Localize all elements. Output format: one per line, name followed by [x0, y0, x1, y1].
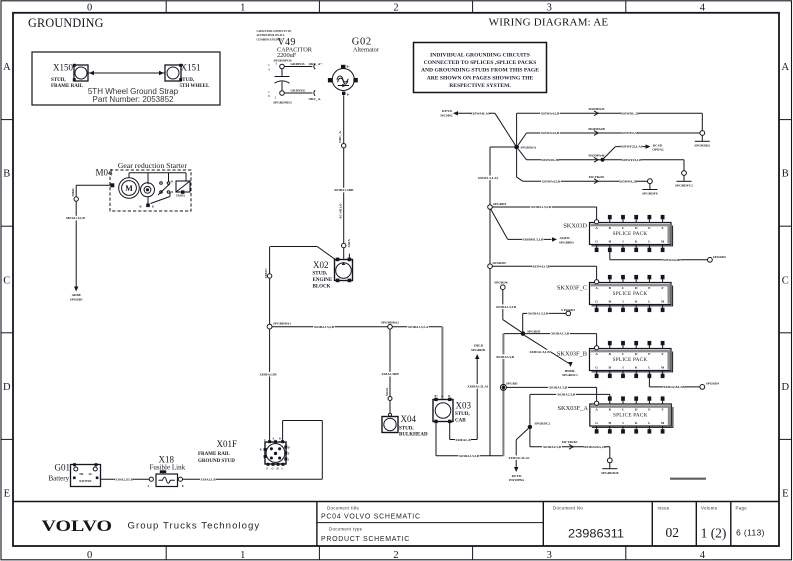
frame row labels left [3, 62, 11, 499]
svg-text:S PGRD3: S PGRD3 [561, 308, 575, 312]
starter motor M [119, 178, 140, 199]
svg-text:SKX03F_B: SKX03F_B [557, 350, 587, 357]
svg-text:G: G [595, 299, 598, 303]
wire to ADBE SPGRB arrow [66, 201, 86, 301]
svg-text:X03BM1.5,LB: X03BM1.5,LB [523, 238, 545, 242]
svg-text:MCTR24F: MCTR24F [562, 440, 578, 444]
svg-text:2: 2 [393, 3, 398, 14]
svg-text:B: B [782, 169, 789, 180]
ground splice SPGRDD2 [700, 131, 705, 136]
svg-text:X05WA4,5,B: X05WA4,5,B [541, 131, 560, 135]
stud X04 bulkhead [382, 413, 428, 437]
svg-text:F: F [662, 286, 664, 290]
svg-text:Fusible Link: Fusible Link [150, 463, 186, 471]
wire 1 junction to SPGRDD2 [517, 107, 703, 145]
svg-text:A: A [782, 62, 790, 73]
svg-text:WIRING DIAGRAM: AE: WIRING DIAGRAM: AE [489, 17, 609, 29]
svg-text:BLOCK: BLOCK [313, 285, 331, 290]
wire G02 to X02 [343, 95, 345, 259]
svg-text:ORC_A+: ORC_A+ [309, 62, 323, 66]
capacitor note text [257, 30, 292, 42]
svg-text:M: M [125, 184, 133, 193]
title block [13, 502, 779, 547]
svg-text:A: A [441, 395, 443, 398]
capacitor C V49 symbol [268, 63, 289, 100]
svg-text:X03BA1.5,LB: X03BA1.5,LB [531, 205, 552, 209]
svg-text:MCM02: MCM02 [440, 114, 453, 118]
node SPGRDC2 [528, 421, 551, 429]
starter solenoid [141, 183, 155, 197]
junction SPGRD7 [500, 381, 518, 390]
svg-text:X03DA2SG,2B: X03DA2SG,2B [584, 445, 606, 449]
wire to SKX03F_C pin A [492, 264, 596, 280]
wire node to KEYD INFOPBA arrow [508, 429, 530, 483]
capacitor V49 labels [274, 37, 313, 63]
svg-text:X150: X150 [53, 63, 73, 73]
svg-text:1: 1 [240, 3, 245, 14]
svg-text:ARE SHOWN ON PAGES SHOWING THE: ARE SHOWN ON PAGES SHOWING THE [427, 75, 534, 81]
wire node up to S PGRD3 connector [523, 308, 576, 331]
svg-text:CONNECTED TO SPLICES ,SPLICE P: CONNECTED TO SPLICES ,SPLICE PACKS [424, 60, 537, 66]
svg-text:X03DA1M,.5B: X03DA1M,.5B [663, 385, 685, 389]
svg-text:ORC_A-: ORC_A- [309, 97, 322, 101]
wire label X03BA1.5RB [334, 188, 354, 193]
svg-text:GROUNDING: GROUNDING [28, 16, 104, 30]
svg-text:X03BA1.5,LA: X03BA1.5,LA [408, 325, 429, 329]
ground strap wire between X150 and X151 [88, 71, 165, 75]
svg-text:STUD,: STUD, [180, 78, 195, 83]
svg-text:B-: B- [140, 206, 143, 209]
svg-text:H: H [608, 299, 611, 303]
wire node to HDML SPGRDC1 arrow [525, 335, 579, 376]
stud X01F frame rail ground stud [198, 438, 290, 471]
svg-text:SPLICE PACK: SPLICE PACK [613, 357, 648, 363]
svg-text:E: E [782, 489, 788, 500]
wire 4 junction to SPGRDF6 [517, 149, 648, 183]
page cell [736, 506, 765, 538]
svg-text:F: F [662, 226, 664, 230]
svg-text:CAB: CAB [455, 418, 466, 423]
svg-text:1 (2): 1 (2) [701, 526, 727, 541]
svg-text:SPGRDBA2: SPGRDBA2 [381, 320, 399, 324]
svg-text:SPGRD: SPGRD [506, 381, 518, 385]
wire SPGRDBA2 to X03 bus corner [392, 325, 442, 330]
svg-text:STUD,: STUD, [313, 272, 328, 277]
svg-text:PRODUCT SCHEMATIC: PRODUCT SCHEMATIC [321, 536, 410, 543]
wire 2 junction to SPGRDD2 [518, 127, 700, 145]
wire to X04 pin [389, 401, 391, 415]
svg-text:MODPA46: MODPA46 [589, 153, 605, 157]
svg-text:STUD,: STUD, [455, 412, 470, 417]
svg-text:F: F [662, 352, 664, 356]
svg-text:INDIVIDUAL GROUNDING CIRCUITS: INDIVIDUAL GROUNDING CIRCUITS [430, 53, 530, 59]
svg-text:X151: X151 [181, 63, 201, 73]
connector SPGRD6 [494, 281, 507, 290]
svg-text:SPGRDD26: SPGRDD26 [601, 471, 619, 475]
svg-text:SPGRD9: SPGRD9 [493, 261, 506, 265]
svg-text:STUD,: STUD, [51, 78, 66, 83]
svg-text:4: 4 [700, 3, 706, 14]
svg-text:3: 3 [547, 550, 552, 561]
wire SKX03F_B pin L to SPGRD4 [649, 378, 719, 389]
svg-text:C: C [264, 439, 266, 442]
svg-text:Volume: Volume [701, 506, 718, 511]
bus wire x=490 [477, 147, 498, 456]
stud X02 engine block [313, 254, 353, 290]
junction SPGRD9 on bus [488, 261, 506, 269]
grey bus down to X03 [441, 327, 443, 399]
svg-text:FRAME RAIL: FRAME RAIL [51, 84, 84, 89]
stud X03 cab [433, 395, 471, 423]
svg-text:D: D [782, 382, 790, 393]
svg-text:GROUND STUD: GROUND STUD [198, 459, 235, 464]
wire 3 junction to SPGRDFC2 [518, 149, 684, 170]
svg-text:Ah: Ah [89, 473, 93, 476]
svg-text:M04A1.5,LB: M04A1.5,LB [66, 216, 85, 220]
document title cell [321, 506, 421, 521]
wire node to SPGRDD26 [530, 429, 610, 458]
stud X151 [165, 63, 210, 89]
grey bus from node down [495, 334, 523, 456]
svg-text:G: G [595, 239, 598, 243]
svg-text:X18A3,LB: X18A3,LB [200, 477, 216, 481]
svg-text:X05WA3.5B: X05WA3.5B [532, 264, 551, 268]
svg-text:23986311: 23986311 [568, 526, 624, 540]
svg-text:H: H [608, 365, 611, 369]
svg-text:SPGRDNEG: SPGRDNEG [273, 100, 292, 104]
svg-text:X02: X02 [313, 260, 329, 270]
svg-text:A: A [3, 62, 11, 73]
svg-text:STUD,: STUD, [399, 426, 414, 431]
wire SPGRDBA2 down to X04 [381, 329, 399, 396]
svg-text:B+: B+ [435, 395, 439, 398]
svg-text:GRD5A: GRD5A [176, 195, 185, 198]
svg-text:D: D [288, 446, 290, 449]
svg-text:X03BA2.5B: X03BA2.5B [259, 372, 277, 376]
svg-text:KEYD: KEYD [442, 109, 452, 113]
ground splice SPGRDFC2 [682, 171, 687, 176]
svg-text:X05W1.5,LA1: X05W1.5,LA1 [478, 176, 499, 180]
svg-text:G: G [595, 365, 598, 369]
svg-text:INFOPBA: INFOPBA [509, 478, 525, 482]
wire X03 bottom-right to IMLD arrow [450, 344, 489, 442]
grey continuation mark bottom right [670, 478, 706, 480]
svg-text:H: H [608, 239, 611, 243]
svg-text:K: K [635, 365, 638, 369]
svg-text:H: H [277, 467, 279, 470]
svg-text:SPGRB03: SPGRB03 [559, 240, 574, 244]
svg-text:X05WF23,LB: X05WF23,LB [621, 158, 642, 162]
connector X01FC [264, 268, 272, 279]
svg-text:SPGRB1: SPGRB1 [70, 297, 83, 301]
connector M04C [71, 187, 79, 201]
document type cell [321, 526, 410, 543]
alternator G02 [328, 37, 380, 97]
svg-text:ENGINE: ENGINE [313, 278, 333, 283]
starter left pin [110, 183, 114, 187]
svg-text:C: C [782, 275, 789, 286]
frame row labels right [782, 62, 790, 499]
svg-text:K: K [260, 449, 262, 452]
svg-text:X03A2.5RB: X03A2.5RB [381, 372, 399, 376]
svg-text:PC04 VOLVO SCHEMATIC: PC04 VOLVO SCHEMATIC [321, 513, 421, 520]
svg-text:SKX03F_A: SKX03F_A [557, 405, 588, 412]
connector X02A on wire [342, 239, 351, 248]
svg-text:X03DA1.5,LB: X03DA1.5,LB [528, 312, 549, 316]
svg-text:Group Trucks Technology: Group Trucks Technology [128, 521, 261, 532]
svg-text:SPLICE PACK: SPLICE PACK [613, 231, 648, 237]
battery G01 [49, 462, 101, 486]
wire to SKX03D pin A [492, 205, 596, 220]
svg-text:X03DA1.5,LB: X03DA1.5,LB [496, 305, 517, 309]
wire battery to X18 [101, 477, 150, 482]
svg-text:X03DA1.5,LB: X03DA1.5,LB [459, 454, 480, 458]
svg-text:X04: X04 [401, 414, 417, 424]
document no cell [553, 506, 624, 541]
wire loop X01F to bottom rail [283, 421, 323, 480]
svg-text:3: 3 [547, 3, 552, 14]
svg-text:4: 4 [700, 550, 706, 561]
svg-text:X05WA4,5,B: X05WA4,5,B [541, 111, 560, 115]
svg-text:BATTERY: BATTERY [79, 480, 91, 483]
svg-text:X03DA2.5,B: X03DA2.5,B [543, 445, 562, 449]
svg-text:SPGRD4: SPGRD4 [706, 382, 719, 386]
svg-text:Document No: Document No [553, 506, 583, 511]
svg-text:X01F: X01F [217, 439, 238, 449]
stud X150 [51, 63, 88, 89]
wire GRDPOS from capacitor [284, 62, 322, 69]
svg-text:K: K [635, 239, 638, 243]
starter M04 [96, 161, 192, 211]
svg-text:SKX03F_C: SKX03F_C [557, 284, 587, 291]
svg-text:FRAME RAIL: FRAME RAIL [198, 452, 231, 457]
svg-text:B: B [279, 438, 281, 441]
issue cell [658, 506, 680, 541]
svg-text:SPGRDF6: SPGRDF6 [642, 192, 658, 196]
branch node to DCSD OPDA2 [601, 143, 664, 161]
svg-text:X05WA4,5B: X05WA4,5B [663, 258, 682, 262]
svg-text:SPLICE PACK: SPLICE PACK [613, 413, 648, 419]
svg-text:X05WA4,5,B: X05WA4,5,B [542, 179, 561, 183]
svg-text:C: C [3, 275, 10, 286]
svg-text:I: I [282, 467, 283, 470]
svg-text:M04C: M04C [71, 187, 75, 197]
svg-text:5TH WHEEL: 5TH WHEEL [180, 84, 210, 89]
svg-text:X05WDL.2B: X05WDL.2B [621, 111, 640, 115]
svg-text:B-: B- [448, 395, 451, 398]
svg-text:VOLVO: VOLVO [42, 518, 113, 535]
svg-text:RESPECTIVE SYSTEM.: RESPECTIVE SYSTEM. [449, 83, 511, 89]
wire to SKX03F_A pin B [530, 392, 610, 397]
bus wire to X01F [269, 247, 271, 443]
svg-text:SPGRDD2: SPGRDD2 [694, 144, 710, 148]
frame column labels bottom [87, 550, 706, 561]
splice pack SKX03F_B [557, 341, 673, 378]
svg-text:OPDA2: OPDA2 [652, 148, 664, 152]
svg-text:BULKHEAD: BULKHEAD [399, 432, 428, 437]
branch to AQ03C SPGRB03 [491, 209, 574, 244]
wire junction to SKX03F_A pin A [506, 385, 596, 401]
svg-text:SPGRD5: SPGRD5 [493, 202, 506, 206]
connector X04A [385, 387, 392, 400]
svg-text:MCTR24S: MCTR24S [589, 175, 605, 179]
svg-text:X03: X03 [456, 400, 472, 410]
svg-text:Issue: Issue [658, 506, 670, 511]
svg-text:X02A: X02A [347, 239, 351, 248]
svg-text:X03BA1.5RB: X03BA1.5RB [334, 188, 354, 192]
svg-text:F: F [662, 408, 664, 412]
svg-text:SKX03D: SKX03D [563, 222, 587, 229]
svg-text:SPGRDC2: SPGRDC2 [535, 421, 551, 425]
svg-text:02: 02 [666, 525, 680, 540]
svg-text:0: 0 [87, 3, 92, 14]
svg-text:GRDNEG: GRDNEG [291, 88, 306, 92]
svg-text:X03BA1.5LA1: X03BA1.5LA1 [467, 384, 488, 388]
svg-text:G01: G01 [55, 462, 71, 472]
svg-text:6 (113): 6 (113) [736, 528, 765, 538]
frame column labels top [87, 3, 706, 14]
ground splice SPGRDD26 [607, 458, 612, 463]
svg-text:G: G [595, 421, 598, 425]
svg-text:SPGRDC1: SPGRDC1 [562, 373, 578, 377]
svg-text:G: G [272, 467, 274, 470]
svg-text:X03DA2.5,B: X03DA2.5,B [557, 393, 576, 397]
wire X03 bottom-left down [435, 422, 437, 456]
svg-text:X03DA1.5,B: X03DA1.5,B [551, 332, 570, 336]
fusible link X18 [148, 454, 186, 488]
node SPGRD5B [521, 329, 541, 336]
svg-text:X05WA4LA1: X05WA4LA1 [470, 111, 490, 115]
svg-text:IMLD: IMLD [474, 344, 484, 348]
starter switch [158, 181, 174, 196]
wire junction left to bus [490, 146, 514, 148]
wire down to SPGRDC2 node [529, 394, 531, 424]
svg-text:X03DA1.5,B: X03DA1.5,B [549, 386, 568, 390]
svg-text:X05WF23,LA1: X05WF23,LA1 [621, 145, 643, 149]
splice pack SKX03D [563, 215, 672, 252]
svg-text:AND GROUNDING STUDS FROM THIS: AND GROUNDING STUDS FROM THIS PAGE [421, 68, 539, 74]
svg-text:X05WD3,5B: X05WD3,5B [621, 131, 640, 135]
svg-text:B: B [182, 485, 184, 488]
svg-text:X18A2,XLB: X18A2,XLB [115, 477, 134, 481]
junction SPGRDBA1 [267, 321, 291, 329]
svg-text:K: K [635, 299, 638, 303]
svg-text:SPGRD6: SPGRD6 [494, 281, 507, 285]
wire SKX03D pin H to SPGRD2 [610, 252, 726, 263]
svg-text:E: E [288, 452, 290, 455]
junction SPGRD5 on bus [488, 202, 507, 209]
svg-text:1: 1 [240, 550, 245, 561]
svg-text:AC-SR1.O: AC-SR1.O [339, 203, 343, 219]
wire GRDNEG from capacitor [273, 88, 321, 104]
svg-text:X05WPA,2B: X05WPA,2B [619, 179, 638, 183]
svg-text:A: A [273, 438, 275, 441]
svg-text:D: D [3, 382, 11, 393]
svg-text:Page: Page [736, 506, 748, 511]
svg-text:SPGRD5: SPGRD5 [527, 329, 540, 333]
svg-text:MODPA43: MODPA43 [589, 107, 605, 111]
svg-text:SPGRD1A: SPGRD1A [521, 146, 537, 150]
splice pack SKX03F_A [557, 396, 672, 433]
svg-text:SPGRD2: SPGRD2 [713, 255, 726, 259]
svg-text:K: K [635, 421, 638, 425]
svg-text:B+: B+ [347, 65, 351, 68]
starter internal wires [129, 173, 186, 204]
svg-text:SPGRDBA1: SPGRDBA1 [273, 321, 291, 325]
svg-text:X03DA1.5LA1: X03DA1.5LA1 [508, 456, 530, 460]
svg-text:X03FAL,B: X03FAL,B [455, 438, 471, 442]
svg-text:0: 0 [87, 550, 92, 561]
wire label X03BA2.5B [259, 372, 277, 377]
junction SPGRDBA2 [381, 320, 399, 329]
svg-text:CAPACITOR CONNECTS TO: CAPACITOR CONNECTS TO [257, 30, 292, 33]
splice pack SKX03F_C [557, 275, 673, 312]
svg-text:X03BA1.5,LB: X03BA1.5,LB [314, 325, 335, 329]
svg-text:H: H [608, 421, 611, 425]
wire y=455.8 under X03 [436, 454, 503, 459]
starter B- pin [140, 197, 155, 209]
svg-text:HR: HR [80, 473, 84, 476]
5th wheel caption [88, 87, 179, 104]
wire SPGRD6 down to SPGRD5 node [495, 290, 521, 333]
svg-text:Document title: Document title [327, 506, 360, 511]
wire SPGRDBA1 to SPGRDBA2 [272, 325, 388, 330]
junction node SPGRD1A [514, 145, 536, 150]
svg-text:MODPA4B: MODPA4B [588, 127, 605, 131]
svg-text:SPLICE PACK: SPLICE PACK [613, 291, 648, 297]
svg-text:Part Number: 2053852: Part Number: 2053852 [93, 95, 174, 104]
svg-text:Battery: Battery [49, 474, 70, 482]
wire node to SKX03F_B pin A [525, 331, 596, 345]
svg-text:Alternator: Alternator [353, 47, 380, 54]
wire M04 bus to X02 [270, 247, 336, 261]
wire junction to KEYD MCM02 arrow [440, 109, 515, 145]
svg-text:A: A [148, 485, 150, 488]
ground splice SPGRDF6 [648, 179, 653, 184]
svg-text:X04A: X04A [385, 387, 389, 396]
svg-text:ORC_A-: ORC_A- [338, 130, 342, 143]
volume cell [701, 506, 727, 541]
svg-text:SPGRDFC2: SPGRDFC2 [675, 184, 693, 188]
5th wheel ground strap box [32, 52, 220, 105]
starter relay [176, 181, 190, 198]
svg-text:GRDPOS: GRDPOS [291, 62, 305, 66]
svg-text:2: 2 [393, 550, 398, 561]
note box [414, 43, 547, 93]
svg-text:X03DA3.5,B: X03DA3.5,B [496, 355, 515, 359]
svg-text:Document type: Document type [329, 526, 363, 531]
svg-text:B-: B- [347, 94, 350, 97]
svg-text:X05WF6,2B: X05WF6,2B [541, 158, 560, 162]
svg-text:B: B [152, 206, 154, 209]
connector ORC_A- on wire [338, 130, 346, 148]
svg-text:Gear reduction Starter: Gear reduction Starter [118, 161, 188, 170]
svg-text:E: E [4, 489, 10, 500]
svg-text:SPGRDB: SPGRDB [471, 348, 485, 352]
svg-text:B: B [3, 169, 10, 180]
svg-text:X03DA1.5,LB: X03DA1.5,LB [529, 350, 550, 354]
wire X18 to rail [183, 477, 323, 482]
svg-text:X01FC: X01FC [264, 268, 268, 279]
wire M04 to ground reference [76, 185, 110, 197]
